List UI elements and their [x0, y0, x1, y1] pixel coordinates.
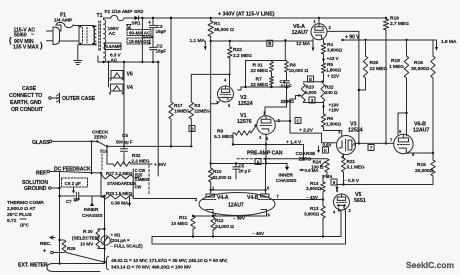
wire glass line down to feedback row — [90, 141, 92, 174]
V6-B cathode to R15 column — [406, 151, 434, 154]
svg-text:R4: R4 — [327, 42, 333, 48]
AC plug P1 — [47, 27, 60, 45]
resistor R22 2.2MEG — [228, 40, 252, 59]
caption text line2 — [111, 265, 192, 271]
wire V4-B plate up — [264, 158, 266, 191]
svg-text:0.6AMP: 0.6AMP — [106, 44, 122, 49]
svg-text:REC.: REC. — [40, 241, 52, 247]
svg-text:1 MEG: 1 MEG — [389, 64, 404, 70]
svg-text:+ 1.4 V: + 1.4 V — [286, 140, 302, 146]
svg-text:22MEG: 22MEG — [194, 109, 210, 115]
main meter wire — [103, 196, 105, 262]
svg-text:R9: R9 — [217, 129, 223, 135]
svg-text:R21: R21 — [347, 159, 356, 165]
svg-text:R26: R26 — [67, 246, 76, 252]
tube V4 envelope — [199, 193, 275, 216]
resistor R7 — [251, 72, 274, 88]
current arrow 1 MA — [322, 174, 339, 190]
wire to V4-A grid — [133, 190, 196, 199]
svg-text:+ 90V: + 90V — [154, 162, 167, 168]
resistor R32 — [107, 146, 167, 168]
caption text line1 — [111, 258, 228, 264]
svg-text:24,000 Ω: 24,000 Ω — [215, 224, 234, 230]
svg-text:0.38 MA: 0.38 MA — [111, 201, 129, 207]
secondary bottom bus — [98, 56, 157, 63]
thermo comp text — [7, 200, 45, 228]
meter M1 — [101, 233, 143, 249]
test point B2 — [308, 76, 314, 82]
wire secondary top to F2 — [104, 18, 112, 20]
svg-text:GLASS: GLASS — [32, 140, 50, 146]
svg-text:R3: R3 — [194, 103, 200, 109]
ext meter loop — [18, 261, 106, 272]
svg-text:THERMO COMP.: THERMO COMP. — [7, 200, 45, 206]
resistor R1 — [208, 18, 234, 41]
current arrow 12 MA — [296, 41, 315, 51]
solution ground terminal — [22, 172, 61, 265]
svg-text:(SELECTED): (SELECTED) — [72, 236, 100, 242]
svg-text:R22: R22 — [233, 47, 242, 53]
svg-text:2.7 MEG: 2.7 MEG — [390, 21, 409, 27]
node +22V — [324, 73, 340, 80]
18-MA DC annotation — [127, 38, 151, 45]
svg-text:1,800Ω: 1,800Ω — [326, 68, 341, 74]
resistor R6 — [321, 114, 341, 128]
resistor R9 — [214, 125, 257, 146]
inner chassis ground 2 — [276, 164, 296, 185]
standardize network R27 R25 R33 — [100, 168, 149, 199]
V3 plate to V6-B grid wire — [354, 138, 393, 151]
svg-text:PRE-AMP CAN: PRE-AMP CAN — [247, 151, 283, 157]
svg-text:12524: 12524 — [238, 101, 253, 107]
V4-A cathode — [206, 210, 217, 218]
svg-text:1,300Ω: 1,300Ω — [326, 122, 341, 128]
svg-text:E: E — [309, 77, 312, 82]
0.38 MA annotation — [111, 196, 131, 207]
svg-text:F2 1/16 AMP: F2 1/16 AMP — [105, 9, 134, 15]
svg-text:C7: C7 — [66, 199, 72, 204]
wire F1 to transformer primary — [73, 24, 75, 27]
+90V bus left — [210, 40, 314, 42]
transformer T1 label — [97, 13, 103, 19]
svg-text:12 MA: 12 MA — [296, 41, 311, 47]
heater wires down — [107, 61, 109, 87]
capacitor C5can 20uF — [211, 162, 287, 179]
svg-text:CHASSIS: CHASSIS — [82, 213, 102, 219]
svg-text:5651: 5651 — [354, 198, 366, 204]
svg-text:25°C PLUS: 25°C PLUS — [7, 212, 33, 218]
svg-text:+ 340V (AT 115-V LINE): + 340V (AT 115-V LINE) — [218, 12, 275, 18]
svg-text:2,900.0 Ω AT: 2,900.0 Ω AT — [7, 206, 35, 212]
fuse F1 — [54, 13, 73, 28]
svg-text:+18V: +18V — [329, 108, 339, 113]
svg-text:R27 2.2 MEG: R27 2.2 MEG — [106, 171, 133, 176]
svg-text:10 MEG: 10 MEG — [171, 221, 188, 227]
wire primary bottom — [59, 41, 96, 45]
svg-text:OR CONDUIT: OR CONDUIT — [11, 107, 44, 113]
svg-text:50/60: 50/60 — [14, 33, 27, 39]
svg-text:INNER: INNER — [279, 173, 294, 179]
V6-A cathode to R4 — [321, 38, 323, 43]
diagonal wire R26 to caption — [66, 253, 106, 263]
svg-text:R20: R20 — [370, 60, 379, 66]
+90V rail right — [343, 35, 437, 42]
resistor R13 — [304, 206, 325, 218]
tube V6-B — [394, 122, 430, 158]
V5 pin4 to -46 bus — [339, 208, 342, 237]
tube V6-A — [292, 18, 332, 40]
wire plug top to fuse F1 — [56, 25, 61, 31]
V6-A grid wire down to V6-B grid node — [327, 31, 360, 144]
resistor R31 — [251, 62, 274, 75]
wire feedback net to V1 plate — [265, 86, 288, 116]
tube V2 — [216, 86, 253, 108]
svg-text:Ω/°C: Ω/°C — [20, 223, 29, 228]
resistor R26 — [60, 240, 76, 253]
svg-text:20,000Ω: 20,000Ω — [415, 168, 434, 174]
shunt resistor R30 — [72, 229, 105, 249]
wire +1.4 elbow to R24 top — [303, 145, 305, 159]
svg-text:135 V MAX: 135 V MAX — [13, 45, 39, 51]
dc feedback label — [54, 167, 91, 173]
svg-text:3,900Ω: 3,900Ω — [306, 186, 321, 192]
transformer T1 primary winding — [94, 26, 96, 45]
resistor R17 — [169, 17, 190, 147]
svg-text:240 Ω: 240 Ω — [325, 90, 338, 96]
svg-text:COARSE: COARSE — [296, 151, 316, 157]
svg-text:SR1: SR1 — [132, 21, 141, 27]
svg-text:12AU7: 12AU7 — [228, 203, 244, 209]
svg-text:+43 V: +43 V — [327, 56, 340, 62]
node +43V — [322, 54, 339, 63]
svg-text:0.6V: 0.6V — [323, 143, 332, 148]
rec terminal — [40, 236, 64, 255]
svg-text:OUTER CASE: OUTER CASE — [62, 96, 96, 102]
svg-text:– FULL SCALE): – FULL SCALE) — [111, 244, 144, 249]
svg-text:ZERO: ZERO — [299, 157, 312, 163]
R24 bottom to R14 — [323, 172, 327, 182]
svg-text:2.2 MEG: 2.2 MEG — [233, 53, 252, 59]
pre-amp can label — [247, 151, 283, 157]
tube V5 — [333, 188, 366, 215]
svg-text:3,900Ω: 3,900Ω — [327, 48, 342, 54]
V4-A plate — [206, 186, 215, 198]
svg-text:22 MEG: 22 MEG — [370, 66, 388, 72]
svg-text:EARTH, GND: EARTH, GND — [10, 100, 42, 106]
coarse zero label — [296, 151, 316, 163]
svg-text:49.02 Ω = 10 MV; 171.57Ω = 35: 49.02 Ω = 10 MV; 171.57Ω = 35 MV; 245.10… — [111, 258, 228, 264]
svg-text:10MEG: 10MEG — [174, 109, 190, 115]
svg-text:R13: R13 — [310, 206, 319, 212]
svg-text:12AU7: 12AU7 — [413, 128, 429, 134]
V6-A grid wire with test point B — [267, 39, 313, 47]
svg-text:V4-A: V4-A — [217, 195, 229, 201]
heater fuse 0.6AMP box — [105, 43, 122, 50]
svg-text:EXT. METER: EXT. METER — [18, 263, 48, 269]
resistor R8 — [285, 62, 309, 75]
-43V node — [280, 192, 324, 207]
ref terminal — [36, 170, 101, 176]
V4 cathode bias wire — [192, 215, 267, 222]
svg-text:V4-B: V4-B — [247, 195, 259, 201]
V3 cathode to R21 — [343, 154, 345, 158]
svg-text:C5: C5 — [122, 133, 128, 139]
svg-text:INNER: INNER — [84, 207, 99, 213]
svg-text:– 39V: – 39V — [233, 216, 246, 222]
test point D — [189, 126, 195, 132]
svg-text:+ 22V: + 22V — [327, 74, 340, 80]
heater V4 — [109, 84, 133, 96]
resistor R10 — [209, 168, 232, 190]
svg-text:R17: R17 — [174, 103, 183, 109]
V4-B cathode — [261, 210, 271, 218]
resistor R22 240 — [321, 83, 338, 102]
current arrow 1.8 MA — [435, 39, 457, 50]
potentiometer R24 — [300, 159, 330, 173]
svg-text:343.14 Ω = 70 MV; 490.20Ω = 1: 343.14 Ω = 70 MV; 490.20Ω = 100 MV — [111, 265, 192, 271]
test point A — [255, 159, 261, 165]
svg-text:+ 90 V: + 90 V — [345, 35, 360, 41]
potentiometer R23 — [281, 83, 317, 105]
svg-text:AC: AC — [109, 31, 116, 37]
svg-text:R15: R15 — [417, 162, 426, 168]
svg-text:10 MV: 10 MV — [80, 242, 94, 248]
svg-text:AC: AC — [111, 58, 118, 64]
svg-text:R18: R18 — [391, 58, 400, 64]
R18 to V6-B plate — [398, 78, 408, 136]
V4-B grid — [258, 194, 280, 200]
svg-text:35,000 Ω: 35,000 Ω — [214, 27, 234, 33]
svg-text:20 µ F: 20 µ F — [239, 169, 252, 174]
svg-text:5.1 MEG: 5.1 MEG — [347, 165, 365, 171]
svg-text:R32: R32 — [132, 153, 141, 159]
svg-text:16µF: 16µF — [156, 29, 167, 35]
svg-text:1/4 AMP: 1/4 AMP — [54, 18, 73, 24]
V1 cathode wire +1.4V — [233, 134, 304, 163]
svg-text:R11: R11 — [179, 215, 188, 221]
wire heater area down to glass switch line — [123, 61, 125, 147]
resistor R11 — [171, 215, 195, 238]
feedback net top wire — [246, 39, 287, 87]
wire R22meg col to V2 plate — [224, 58, 230, 86]
svg-text:16µF: 16µF — [156, 49, 167, 55]
vertical wire from common bus — [157, 61, 159, 176]
svg-text:R1: R1 — [214, 21, 220, 27]
svg-text:R22: R22 — [325, 85, 334, 91]
resistor R16 — [411, 40, 435, 153]
outer case terminal — [49, 93, 96, 103]
svg-text:R12: R12 — [215, 218, 224, 224]
rectifier SR2 — [124, 16, 152, 20]
R23-R22 join bottom — [303, 97, 339, 114]
wire R6 to V3 screen — [324, 127, 342, 136]
resistor R15 — [415, 153, 435, 185]
svg-text:0.9 MA: 0.9 MA — [305, 168, 320, 173]
svg-text:30,000Ω: 30,000Ω — [411, 66, 430, 72]
svg-text:CASE: CASE — [22, 86, 37, 92]
svg-text:– 0.5 V: – 0.5 V — [344, 178, 360, 184]
resistor R21 — [342, 158, 365, 172]
svg-text:22 MEG: 22 MEG — [251, 68, 269, 74]
resistor R4 — [321, 42, 342, 54]
rectifier SR1 branch — [127, 17, 144, 63]
svg-text:STANDARDIZE: STANDARDIZE — [107, 181, 137, 186]
svg-text:82,000 Ω: 82,000 Ω — [213, 175, 232, 181]
svg-text:+: + — [148, 20, 151, 26]
svg-text:0.5MEG: 0.5MEG — [135, 177, 149, 182]
resistor R20 — [358, 39, 388, 91]
check zero switch S1A — [92, 130, 109, 171]
R13 to -46 bus — [322, 218, 324, 238]
tube V1 — [237, 111, 281, 142]
svg-text:R33 1.5 MEG: R33 1.5 MEG — [106, 191, 133, 196]
svg-text:B: B — [268, 41, 271, 46]
svg-text:ZERO: ZERO — [281, 99, 295, 105]
watermark SeekIC.com — [406, 260, 454, 270]
svg-text:R5: R5 — [327, 62, 333, 68]
capacitor C6 box — [62, 178, 88, 194]
feedback net bottom wire — [238, 86, 287, 90]
svg-text:+: + — [148, 41, 151, 47]
svg-text:– 46V: – 46V — [252, 231, 265, 237]
wire V1 plate to V3 grid — [275, 99, 336, 153]
fuse F2 — [105, 9, 144, 21]
svg-text:SR2: SR2 — [134, 9, 144, 15]
svg-text:1.1 MA: 1.1 MA — [190, 38, 206, 44]
svg-text:REF.: REF. — [36, 171, 47, 177]
capacitor C2 — [148, 37, 166, 63]
capacitor C4 — [280, 72, 293, 89]
V4-A grid — [195, 197, 217, 202]
svg-text:V6: V6 — [127, 72, 133, 78]
svg-text:SeekIC.com: SeekIC.com — [406, 260, 454, 270]
AC line input text — [9, 28, 43, 51]
svg-text:CW: CW — [135, 185, 142, 190]
svg-text:CHASSIS: CHASSIS — [276, 178, 296, 184]
-0.5V line — [331, 172, 433, 186]
svg-text:9.72: 9.72 — [7, 218, 17, 224]
svg-text:1.8 MA: 1.8 MA — [441, 39, 457, 45]
V5 pin2 to return bus — [345, 208, 346, 244]
svg-text:R8: R8 — [290, 63, 296, 69]
transformer T1 secondary winding — [104, 20, 106, 63]
ground at T1 shield — [74, 45, 82, 65]
heater V6 — [110, 71, 133, 82]
resistor R19 — [383, 16, 409, 145]
case note text — [9, 86, 44, 113]
svg-text:(204 µA =: (204 µA = — [111, 238, 130, 243]
svg-text:5,000: 5,000 — [305, 90, 317, 96]
svg-text:5.1 MEG: 5.1 MEG — [214, 134, 233, 140]
capacitor C5 500uuF — [107, 133, 193, 164]
capacitor C3 — [142, 17, 166, 38]
svg-text:ZERO: ZERO — [94, 135, 107, 141]
resistor R18 — [389, 40, 409, 78]
svg-text:R19: R19 — [390, 16, 399, 22]
current arrow 1.1 MA — [190, 38, 207, 50]
resistor R3 — [189, 73, 231, 146]
wire R1 column down to preamp — [210, 41, 220, 168]
caption brace — [107, 257, 109, 270]
svg-text:10,000 Ω: 10,000 Ω — [289, 68, 309, 74]
svg-text:R16: R16 — [414, 60, 423, 66]
60-MA AC annotation — [127, 30, 151, 37]
wire primary top into box — [75, 26, 96, 27]
V4 plate top wire — [210, 189, 267, 191]
svg-text:C6 2 µF: C6 2 µF — [65, 181, 81, 187]
svg-text:T1: T1 — [97, 13, 103, 19]
return bus — [152, 237, 346, 245]
glass terminal — [32, 140, 97, 146]
svg-text:12524: 12524 — [348, 128, 363, 134]
R23-R22 split top — [303, 78, 323, 83]
+340V rail — [139, 12, 388, 20]
transformer T1 primary box — [79, 26, 94, 45]
svg-text:R6: R6 — [327, 116, 333, 122]
svg-text:– 43V: – 43V — [306, 195, 319, 201]
inner chassis arrow — [82, 196, 102, 219]
transformer T1 core — [99, 21, 101, 51]
svg-text:R23: R23 — [306, 85, 315, 91]
resistor R12 — [211, 217, 234, 238]
svg-text:R 30: R 30 — [83, 229, 93, 235]
V4-B plate — [261, 186, 271, 198]
svg-text:GROUND: GROUND — [24, 186, 47, 192]
svg-text:CONNECT TO: CONNECT TO — [9, 93, 42, 99]
svg-text:D: D — [191, 126, 194, 131]
test point C — [295, 118, 301, 124]
svg-text:C: C — [297, 118, 300, 123]
svg-text:+ 2.2V: + 2.2V — [299, 128, 314, 134]
6.3V AC label — [110, 53, 122, 64]
coarse zero injection wire — [266, 158, 328, 160]
svg-text:+ M1: + M1 — [111, 233, 121, 238]
svg-text:R10: R10 — [213, 169, 222, 175]
tube V3 — [337, 122, 363, 160]
svg-text:3,900Ω: 3,900Ω — [304, 212, 319, 218]
svg-text:V4: V4 — [127, 85, 133, 91]
svg-text:60-MA AC: 60-MA AC — [129, 30, 151, 36]
svg-text:12AU7: 12AU7 — [292, 30, 308, 36]
svg-text:R7: R7 — [256, 77, 262, 83]
T1 secondary 195V AC label — [108, 26, 120, 37]
svg-text:R 31: R 31 — [253, 63, 263, 69]
capacitor C7 — [60, 192, 106, 204]
svg-text:1µF: 1µF — [73, 197, 80, 202]
resistor R5 — [321, 62, 341, 74]
svg-text:12576: 12576 — [237, 119, 252, 125]
pre-amp can dashed border — [149, 159, 270, 195]
resistor R14 — [306, 181, 325, 192]
-46V bus — [152, 231, 341, 237]
